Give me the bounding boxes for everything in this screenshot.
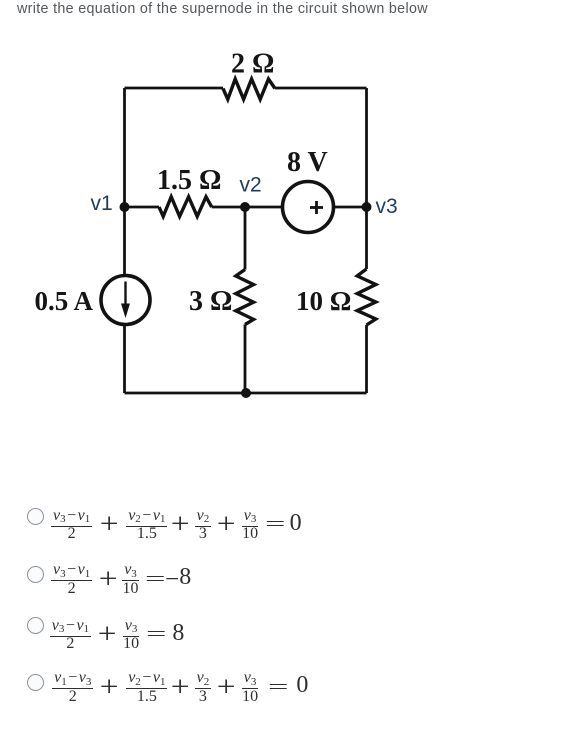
wire bottom horizontal <box>125 392 367 395</box>
wire left vertical (v1 down to current source) <box>123 88 126 275</box>
svg-text:v3: v3 <box>376 195 398 218</box>
svg-text:10 Ω: 10 Ω <box>296 286 351 316</box>
resistor R3 3 ohm <box>236 270 254 325</box>
wire middle vertical bottom <box>244 325 247 394</box>
node v3 junction dot <box>362 202 372 212</box>
wire middle horizontal v1 to R 1.5ohm <box>125 206 160 209</box>
svg-text:8 V: 8 V <box>287 147 328 178</box>
resistor R2 1.5 ohm <box>159 197 212 217</box>
node v2 junction dot <box>240 202 250 212</box>
option row 1 <box>27 508 44 525</box>
wire voltage source to v3 <box>334 206 367 209</box>
wire right vertical bottom <box>365 325 368 393</box>
option row 2 <box>27 566 44 583</box>
svg-text:0.5 A: 0.5 A <box>35 286 94 316</box>
current source I1 0.5 A circle <box>101 276 150 325</box>
wire left vertical (current source down to bottom) <box>123 325 126 393</box>
resistor R4 10 ohm <box>357 269 376 325</box>
voltage source V1 8V circle <box>283 182 334 233</box>
svg-text:3 Ω: 3 Ω <box>189 286 232 317</box>
circuit schematic <box>0 0 579 470</box>
wire top (node v1 to node v3 via R 2ohm) <box>125 87 367 90</box>
wire middle horizontal R1.5 to voltage source <box>212 206 283 209</box>
svg-text:2 Ω: 2 Ω <box>231 49 274 80</box>
node v1 junction dot <box>120 202 130 212</box>
svg-text:v1: v1 <box>91 192 113 215</box>
resistor R1 2 ohm <box>223 79 275 99</box>
node bottom junction dot <box>241 388 251 398</box>
wire right vertical top (v3 up to top wire) <box>365 88 368 269</box>
voltage source plus sign <box>310 201 323 214</box>
svg-text:v2: v2 <box>240 174 262 197</box>
option row 4 <box>27 674 44 691</box>
svg-text:1.5 Ω: 1.5 Ω <box>157 165 221 196</box>
current source arrow (downward) <box>121 282 130 319</box>
wire middle vertical (v2 down to R 3ohm) <box>244 207 247 270</box>
option row 3 <box>27 617 44 634</box>
